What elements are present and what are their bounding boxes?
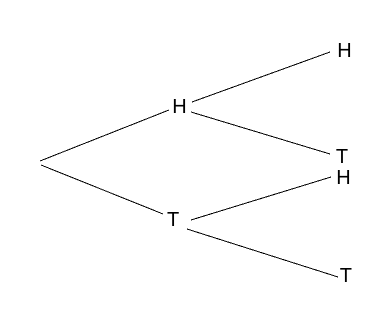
branch root to T (first toss tails)	[41, 165, 163, 214]
svg-text:T: T	[340, 265, 352, 287]
branch H to HH	[192, 52, 330, 102]
branch H to HT	[191, 112, 330, 154]
svg-text:T: T	[336, 146, 348, 168]
svg-text:H: H	[336, 167, 350, 189]
branch root to H (first toss heads)	[40, 110, 169, 161]
svg-text:H: H	[337, 40, 351, 62]
branch T to TH	[191, 177, 331, 220]
svg-text:H: H	[172, 96, 186, 118]
svg-text:T: T	[167, 209, 179, 231]
branch T to TT	[187, 229, 338, 277]
